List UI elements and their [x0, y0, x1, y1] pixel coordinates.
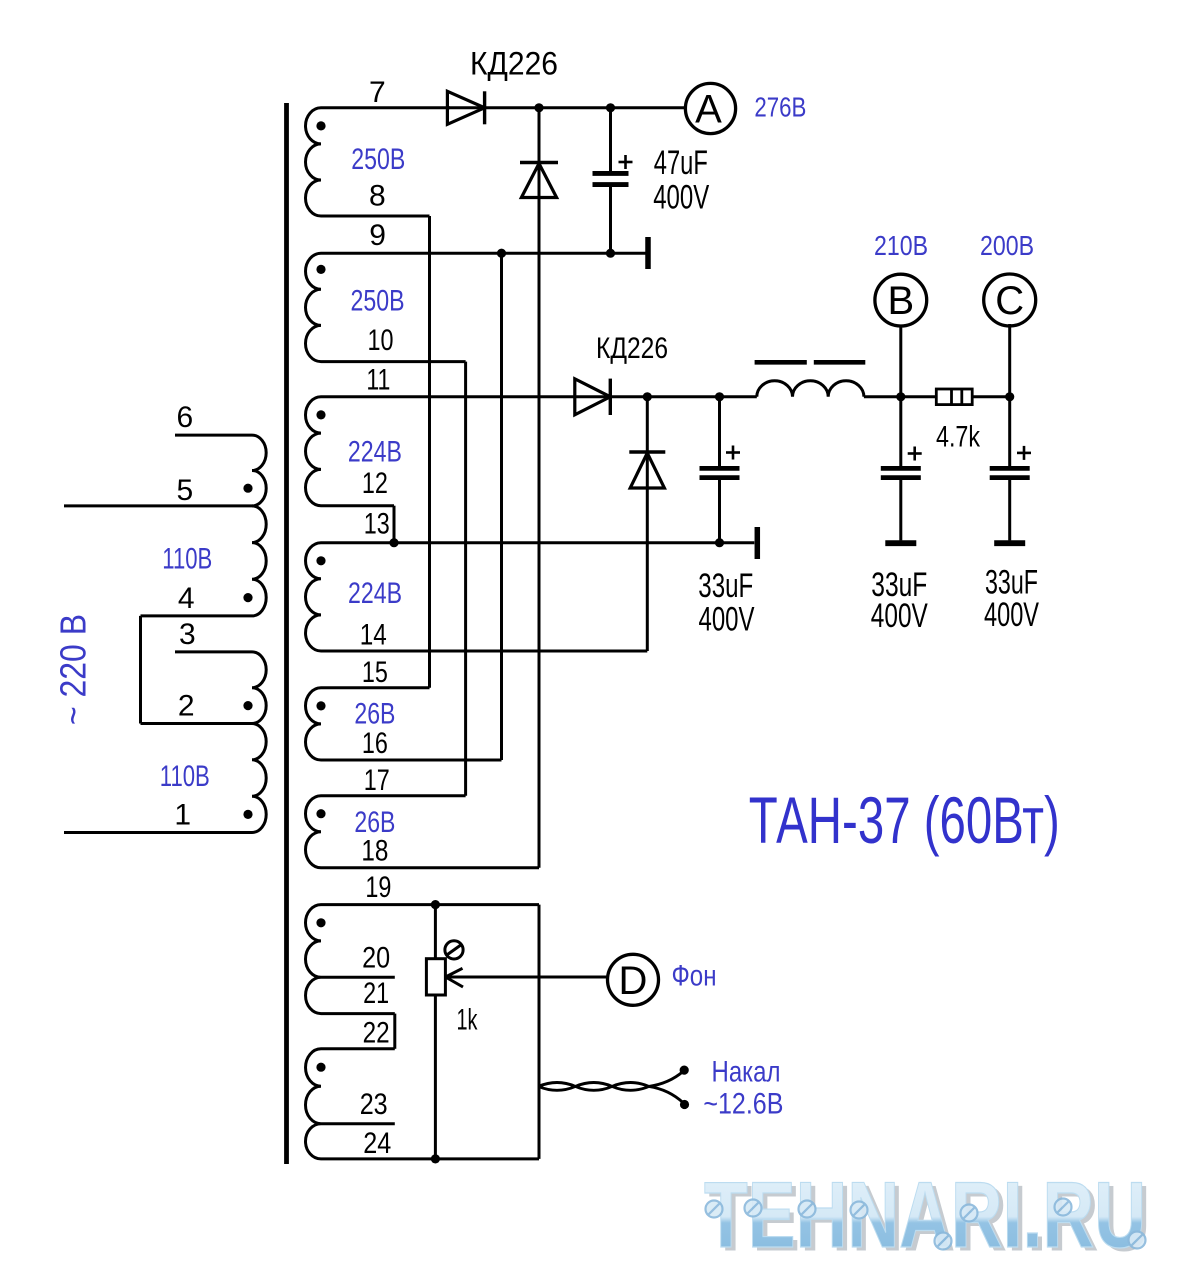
svg-text:Накал: Накал: [712, 1056, 781, 1089]
svg-text:400V: 400V: [699, 601, 755, 639]
diode VD4 KD226 (vertical): [629, 452, 665, 488]
node VD3-VD4 junction: [643, 392, 652, 401]
svg-text:33uF: 33uF: [698, 567, 753, 605]
wire pin8 to pin15: [428, 216, 431, 688]
phase dot winding 19-20: [316, 918, 325, 927]
choke L1 core bar 1: [755, 360, 807, 365]
node pot bottom junction: [431, 1154, 440, 1163]
terminal D circle: [608, 954, 659, 1005]
capacitor C2 33uF 400V: [700, 397, 741, 543]
svg-text:110В: 110В: [162, 543, 212, 576]
svg-text:9: 9: [369, 219, 386, 252]
node C1 top junction: [606, 103, 615, 112]
svg-text:3: 3: [179, 618, 196, 651]
svg-text:4.7k: 4.7k: [936, 420, 981, 453]
wire pin21 to pin22 jumper: [393, 1014, 396, 1049]
wire pin 12 lead: [321, 504, 394, 507]
wire pin 9 lead (to ground): [321, 252, 646, 255]
svg-text:400V: 400V: [984, 596, 1039, 634]
svg-text:6: 6: [176, 401, 193, 434]
wire node B to terminal: [899, 326, 902, 397]
secondary winding 11-12 (224V): [306, 397, 322, 506]
primary winding 5-4 (110V): [252, 506, 266, 616]
terminal A circle: [685, 83, 735, 133]
svg-text:2: 2: [178, 690, 195, 723]
svg-text:5: 5: [176, 474, 193, 507]
svg-text:18: 18: [361, 835, 388, 868]
diode VD1 KD226: [447, 91, 484, 124]
pin 4 lead: [141, 614, 253, 617]
wire pin 19 lead: [321, 903, 539, 906]
phase dot winding 22-23: [316, 1063, 325, 1072]
wire VD1 to terminal A: [447, 106, 686, 109]
wire node A through diode VD2 to pin18: [538, 108, 541, 868]
svg-text:12: 12: [362, 467, 388, 500]
svg-text:16: 16: [362, 727, 388, 760]
svg-text:23: 23: [360, 1088, 388, 1121]
wire pin 21 lead: [321, 1012, 395, 1015]
svg-text:TEHNARI.RU: TEHNARI.RU: [704, 1162, 1146, 1267]
svg-text:26В: 26В: [354, 698, 395, 731]
wire pin 23 lead (stub): [321, 1122, 395, 1125]
svg-text:47uF: 47uF: [654, 144, 708, 182]
svg-text:20: 20: [362, 942, 390, 975]
node B junction: [896, 392, 905, 401]
potentiometer R2 1k body: [426, 959, 445, 995]
wire pin 14 lead: [321, 650, 647, 653]
choke L1 winding: [757, 381, 864, 397]
ground symbol BC filter: [755, 527, 761, 559]
svg-text:210В: 210В: [874, 230, 928, 261]
svg-text:D: D: [619, 959, 648, 1003]
node pin12-pin13 junction: [389, 538, 398, 547]
svg-text:400V: 400V: [871, 597, 928, 635]
svg-text:250В: 250В: [351, 285, 405, 318]
svg-text:КД226: КД226: [470, 46, 558, 82]
wire pin 20 lead (stub): [321, 976, 395, 979]
wire pin 13 lead (ground rail): [321, 541, 754, 544]
ground symbol capacitor C3: [885, 540, 916, 546]
pin 5 lead (mains): [64, 504, 252, 507]
svg-text:Фон: Фон: [672, 960, 717, 993]
ground symbol capacitor C4: [994, 540, 1025, 546]
primary winding 3-2: [252, 652, 266, 724]
pin 3 lead: [175, 650, 252, 653]
wire pin 10 lead: [321, 360, 466, 363]
diode VD3 KD226: [575, 379, 611, 415]
wire pin 18 lead: [321, 866, 539, 869]
choke L1 core bar 2: [814, 360, 866, 365]
wire pin 16 lead: [321, 759, 502, 762]
watermark screw icons: [706, 1201, 723, 1218]
wire node C to terminal: [1008, 324, 1011, 397]
resistor R1 4.7k: [936, 389, 972, 405]
node C2 ground junction: [715, 538, 724, 547]
wire pin12 to pin13: [393, 506, 396, 543]
svg-text:15: 15: [362, 656, 388, 689]
svg-text:276В: 276В: [754, 92, 806, 123]
wire pin19 to potentiometer top: [434, 905, 437, 959]
secondary winding 19-20-21 (filament): [305, 905, 321, 1014]
svg-text:22: 22: [363, 1017, 390, 1050]
svg-text:11: 11: [366, 364, 390, 397]
wire resistor R1 to node C: [972, 395, 1010, 398]
potentiometer screw adjuster: [445, 941, 463, 959]
node C junction: [1005, 392, 1014, 401]
node C1 bottom junction: [606, 249, 615, 258]
svg-text:14: 14: [360, 619, 387, 652]
wire pin 24 lead (bottom rail): [321, 1157, 539, 1160]
phase dot winding 2-1: [243, 810, 252, 819]
terminal C circle: [984, 274, 1036, 326]
svg-text:13: 13: [364, 508, 390, 541]
wire pin 11 lead: [321, 395, 757, 398]
svg-text:~12.6В: ~12.6В: [703, 1087, 783, 1120]
svg-text:1k: 1k: [457, 1004, 479, 1037]
secondary winding 7-8 (250V): [306, 108, 322, 216]
capacitor C1 47uF 400V: [593, 108, 633, 253]
pin 2 lead: [141, 722, 253, 725]
wire pin10 to pin17: [464, 362, 467, 796]
secondary winding 15-16 (26V): [305, 688, 321, 760]
svg-text:17: 17: [364, 764, 390, 797]
filament wire end upper: [680, 1066, 689, 1075]
svg-text:8: 8: [369, 180, 386, 213]
node VD1-VD2 junction: [534, 103, 543, 112]
svg-text:110В: 110В: [160, 760, 210, 793]
wire potentiometer bottom to pin24 rail: [434, 995, 437, 1159]
wire pin19 to pin24 right side: [538, 905, 541, 1159]
svg-text:10: 10: [368, 324, 394, 357]
phase dot winding 15-16: [316, 701, 325, 710]
svg-text:1: 1: [174, 799, 191, 832]
filament wire end lower: [680, 1100, 689, 1109]
svg-text:19: 19: [365, 871, 391, 904]
svg-text:C: C: [995, 279, 1024, 323]
wire pin 7 lead: [321, 106, 450, 109]
svg-text:26В: 26В: [354, 806, 395, 839]
wire pin 8 lead: [321, 215, 430, 218]
svg-text:КД226: КД226: [596, 332, 668, 365]
wire pin 22 lead: [321, 1047, 395, 1050]
jumper wire pin4-pin2: [139, 616, 142, 724]
primary winding 6-5: [252, 435, 266, 506]
svg-text:250В: 250В: [351, 143, 405, 176]
capacitor C3 33uF 400V: [881, 397, 922, 541]
svg-text:200В: 200В: [980, 230, 1034, 261]
pin 1 lead (mains): [64, 831, 252, 834]
capacitor C4 33uF 400V: [990, 397, 1031, 541]
svg-text:4: 4: [178, 582, 195, 615]
wire pin 17 lead: [321, 794, 466, 797]
wire output node through diode VD4 to pin14: [646, 397, 649, 651]
ground symbol node A filter: [645, 237, 651, 269]
secondary winding 17-18 (26V): [306, 796, 322, 868]
node C2 top junction: [715, 392, 724, 401]
secondary winding 22-23-24 (filament): [306, 1049, 322, 1159]
wire pin 15 lead: [321, 686, 430, 689]
svg-text:400V: 400V: [653, 178, 709, 216]
svg-text:24: 24: [363, 1127, 391, 1160]
svg-text:7: 7: [369, 76, 386, 109]
svg-text:21: 21: [363, 977, 389, 1010]
wire wiper to terminal D: [446, 976, 608, 979]
svg-text:ТАН-37 (60Вт): ТАН-37 (60Вт): [749, 783, 1060, 857]
phase dot winding 17-18: [316, 809, 325, 818]
phase dot winding 5-4: [243, 593, 252, 602]
wire choke to resistor R1: [864, 395, 936, 398]
node pot top junction: [431, 900, 440, 909]
svg-text:224В: 224В: [348, 577, 402, 610]
primary winding 2-1 (110V): [252, 724, 266, 833]
phase dot winding 3-2: [243, 701, 252, 710]
svg-text:A: A: [695, 88, 722, 132]
potentiometer R2 wiper arrow: [446, 968, 464, 987]
phase dot winding 7-8: [316, 121, 325, 130]
svg-text:~ 220 В: ~ 220 В: [53, 614, 94, 725]
secondary winding 9-10 (250V): [306, 253, 322, 361]
wire pin16 to ground line: [500, 253, 503, 760]
transformer core: [284, 103, 289, 1164]
watermark tehnari.ru: [704, 1162, 1151, 1271]
twisted pair end wires: [649, 1072, 684, 1104]
phase dot winding 11-12: [316, 410, 325, 419]
phase dot winding 9-10: [316, 265, 325, 274]
twisted pair filament wires: [539, 1083, 649, 1091]
phase dot winding 6-5: [243, 484, 252, 493]
secondary winding 13-14 (224V): [305, 543, 321, 651]
svg-text:B: B: [887, 279, 914, 323]
terminal B circle: [875, 274, 927, 326]
node pin16 riser junction: [497, 249, 506, 258]
svg-text:224В: 224В: [348, 436, 402, 469]
pin 6 lead: [175, 434, 252, 437]
phase dot winding 13-14: [316, 556, 325, 565]
diode VD2 KD226 (vertical): [520, 163, 558, 198]
